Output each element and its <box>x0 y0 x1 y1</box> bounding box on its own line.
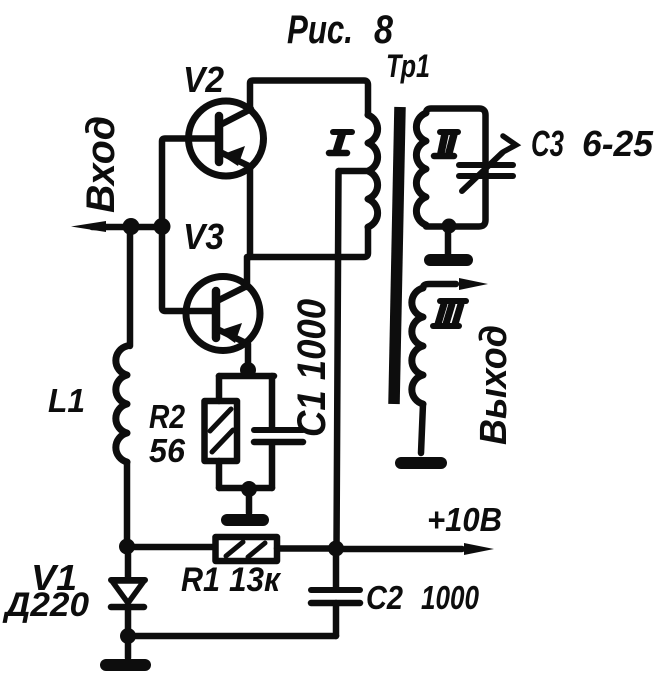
svg-text:8: 8 <box>374 8 394 52</box>
svg-text:V3: V3 <box>183 216 224 257</box>
svg-text:Рис.: Рис. <box>287 8 353 52</box>
svg-text:Тр1: Тр1 <box>386 48 430 84</box>
svg-text:С2: С2 <box>366 579 404 616</box>
svg-text:13к: 13к <box>229 561 282 599</box>
svg-text:V2: V2 <box>183 59 224 100</box>
svg-text:Вход: Вход <box>79 116 123 213</box>
svg-text:С3: С3 <box>531 123 564 164</box>
svg-text:6-25: 6-25 <box>582 123 654 164</box>
svg-text:+10В: +10В <box>427 501 502 538</box>
svg-text:R1: R1 <box>181 561 220 599</box>
svg-text:L1: L1 <box>48 382 85 419</box>
svg-text:R2: R2 <box>149 398 186 435</box>
svg-text:Д220: Д220 <box>2 586 89 624</box>
svg-text:1000: 1000 <box>421 579 480 616</box>
svg-text:Выход: Выход <box>473 325 515 445</box>
svg-text:56: 56 <box>149 432 186 469</box>
svg-text:С1 1000: С1 1000 <box>290 299 334 437</box>
